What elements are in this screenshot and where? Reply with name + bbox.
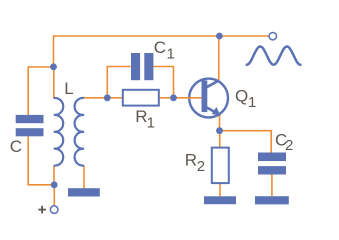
- capacitor C plates: [16, 115, 44, 136]
- wire Q1 collector up to top rail: [218, 36, 220, 81]
- svg-text:1: 1: [248, 94, 256, 111]
- capacitor C1 plates: [131, 53, 153, 80]
- wire left coil top stub: [53, 67, 55, 99]
- junction node B (R1/C1 right): [170, 94, 177, 101]
- svg-text:R: R: [185, 151, 197, 170]
- wire top rail from left corner to output terminal: [54, 36, 269, 67]
- junction node on top rail (collector): [216, 33, 223, 40]
- svg-text:2: 2: [197, 158, 205, 175]
- wire right coil top to node A: [84, 97, 107, 99]
- junction node A (R1/C1 left): [104, 94, 111, 101]
- wire C branch bottom: C bottom plate to bottom node: [28, 136, 54, 185]
- plus sign: [38, 206, 46, 214]
- wire C branch top: node to capacitor C top plate: [28, 67, 53, 115]
- svg-text:1: 1: [147, 115, 155, 132]
- svg-text:C: C: [154, 38, 166, 57]
- wire node A to R1 left: [107, 97, 123, 99]
- wire emitter node right then down to C2: [220, 131, 272, 153]
- wire battery stub: bottom node down to + terminal: [53, 185, 55, 206]
- inductor L left coil: [54, 98, 63, 166]
- wire right coil bottom stub to ground: [83, 166, 85, 190]
- svg-text:2: 2: [285, 137, 293, 154]
- wire R1 right to node B: [159, 97, 174, 99]
- output terminal: [269, 33, 276, 40]
- wire Q1 emitter down to emitter node: [219, 114, 221, 131]
- resistor R1: [123, 90, 159, 106]
- svg-text:L: L: [64, 79, 73, 98]
- wire R2 bottom to ground: [219, 183, 221, 197]
- ground bar under C2: [255, 196, 289, 204]
- ground bar under right coil: [68, 188, 100, 196]
- ground bar under R2: [204, 196, 236, 204]
- transistor Q1: [188, 79, 228, 118]
- wire node B to Q1 base: [174, 97, 203, 99]
- junction node bottom left: [51, 181, 58, 188]
- sine wave output symbol: [247, 46, 301, 64]
- wire C1 left riser from node A: [107, 67, 131, 98]
- battery + terminal: [50, 206, 58, 214]
- wire emitter node down to R2: [219, 131, 221, 148]
- capacitor C2 plates: [258, 153, 286, 175]
- inductor L right coil: [75, 98, 84, 166]
- junction node at top of C branch: [50, 63, 57, 70]
- svg-text:C: C: [10, 137, 22, 156]
- resistor R2: [212, 148, 229, 184]
- junction node at emitter: [216, 127, 223, 134]
- wire left coil bottom stub: [53, 165, 55, 185]
- wire C2 bottom to ground: [271, 174, 273, 196]
- svg-text:Q: Q: [235, 87, 248, 106]
- wire C1 right riser to node B: [153, 67, 173, 98]
- svg-text:1: 1: [167, 46, 175, 63]
